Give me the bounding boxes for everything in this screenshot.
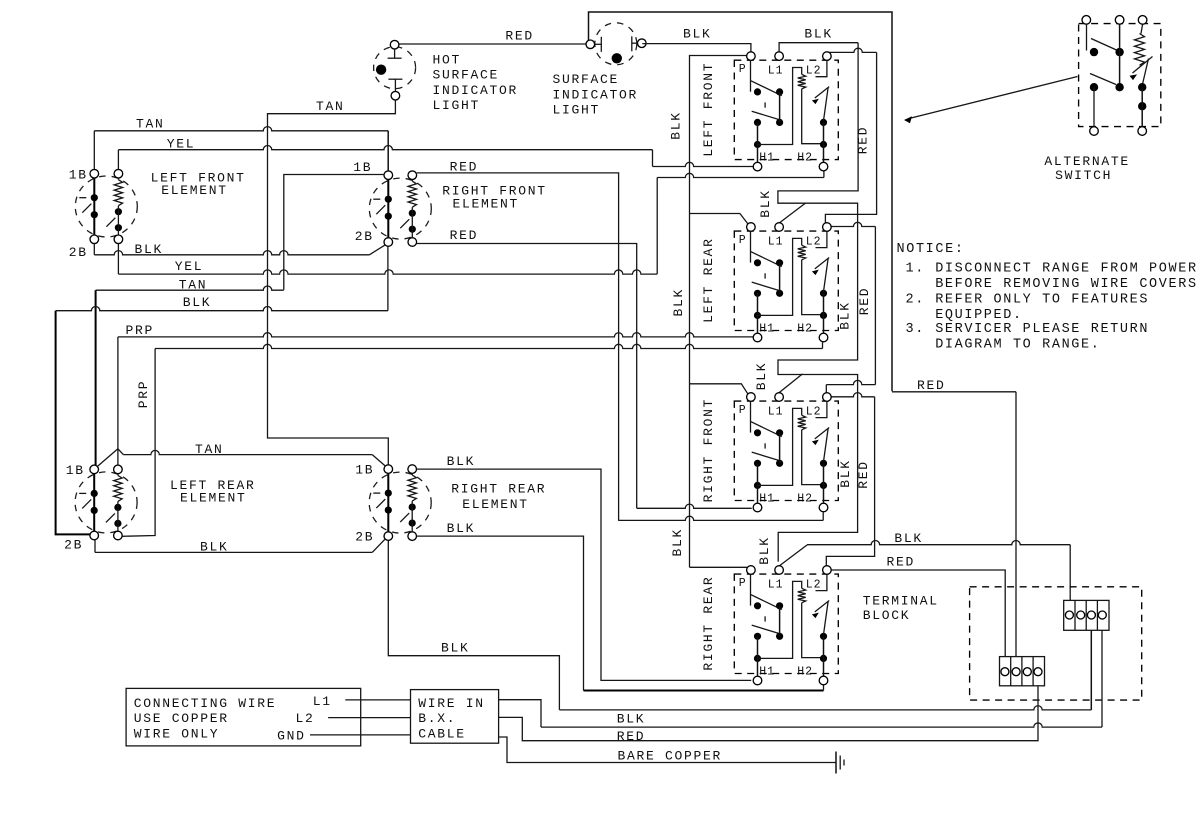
switch S4 adjust arrow — [815, 601, 829, 612]
left rear element terminal 1B side — [90, 465, 99, 474]
svg-text:L1: L1 — [768, 405, 784, 418]
svg-text:L2: L2 — [806, 405, 822, 418]
wire YEL LF to H2-S1 — [823, 171, 825, 178]
wire RED vertical segment 1 — [825, 52, 876, 223]
wire H2-S2 to LR resistor-bottom — [822, 342, 824, 348]
left front element limiter contact lower — [91, 211, 98, 218]
left front element limiter blade — [82, 204, 91, 213]
svg-text:L1: L1 — [768, 235, 784, 248]
hot surface indicator light DS1 bottom terminal — [391, 91, 400, 100]
switch S1 bar B-D — [779, 92, 781, 123]
svg-text:TERMINAL: TERMINAL — [863, 594, 939, 609]
right rear element resistor — [408, 475, 416, 501]
svg-text:ELEMENT: ELEMENT — [161, 183, 228, 198]
switch S2 contact G — [820, 312, 827, 319]
svg-text:1B: 1B — [355, 463, 374, 478]
wire TAN light1 to x267 — [268, 100, 396, 465]
left front element limiter contact upper — [91, 194, 98, 201]
wire RED supply top rail — [589, 12, 893, 391]
svg-text:BLK: BLK — [135, 242, 164, 257]
wire BLK LR-2B to RR-2B — [94, 540, 96, 553]
svg-text:BLK: BLK — [837, 301, 852, 330]
svg-text:TAN: TAN — [316, 99, 345, 114]
switch S1 contact E — [754, 141, 761, 148]
svg-text:LIGHT: LIGHT — [553, 103, 601, 118]
svg-text:BLK: BLK — [447, 454, 476, 469]
svg-text:2B: 2B — [64, 538, 83, 553]
wire RED supply L2 — [499, 687, 1038, 741]
switch S4 RIGHT REAR dashed box — [734, 574, 838, 673]
svg-text:BEFORE REMOVING WIRE COVERS: BEFORE REMOVING WIRE COVERS — [935, 277, 1197, 292]
svg-text:ELEMENT: ELEMENT — [462, 497, 529, 512]
switch S3 blade tick — [764, 443, 766, 448]
switch S2 LEFT REAR dashed box — [734, 231, 838, 330]
wire BLK LF-2B to RF-2B — [93, 244, 95, 255]
svg-text:P: P — [739, 577, 747, 590]
svg-text:BLK: BLK — [447, 521, 476, 536]
switch S3 terminal L1 — [775, 393, 784, 402]
wire BLK L1-S1 riser — [779, 43, 858, 52]
terminal block dashed box — [970, 587, 1142, 700]
upper strip lug 2 — [1077, 611, 1085, 619]
alternate switch terminal T2 — [1115, 16, 1124, 25]
switch S3 contact E — [754, 482, 761, 489]
switch S1 contact D — [776, 119, 783, 126]
switch S4 pilot lead — [802, 603, 824, 658]
left front element dashed enclosure — [75, 176, 137, 237]
switch S1 contact B — [776, 88, 783, 95]
left rear element resistor blade — [106, 513, 115, 522]
svg-text:RED: RED — [887, 555, 916, 570]
switch S3 terminal H1 — [753, 503, 762, 512]
hot surface indicator light DS1 top electrode — [394, 49, 396, 58]
alternate switch pole 2 lead — [1119, 24, 1121, 87]
switch S4 terminal P — [747, 566, 756, 575]
switch S2 bar C-E-H1 — [757, 293, 759, 333]
right rear element terminal 2B side — [384, 532, 393, 541]
switch S2 bar F-H2 — [823, 293, 825, 333]
wire RED L2-S3 out — [831, 393, 875, 397]
svg-text:CONNECTING WIRE: CONNECTING WIRE — [134, 696, 277, 711]
right front element resistor line lower — [411, 207, 413, 238]
left front element resistor contact upper — [115, 208, 122, 215]
svg-text:H1: H1 — [759, 322, 775, 335]
switch S4 blade tick — [764, 616, 766, 621]
right front element dashed enclosure — [369, 178, 431, 239]
alternate switch dashed box — [1079, 24, 1161, 127]
alternate switch thermostat blade — [1142, 59, 1148, 86]
switch S2 blade upper — [751, 252, 782, 267]
switch S3 blade lower — [752, 452, 782, 461]
svg-text:LEFT REAR: LEFT REAR — [701, 237, 716, 323]
switch S4 pilot resistor — [798, 588, 806, 603]
left front element resistor contact lower — [115, 224, 122, 231]
switch S1 terminal H1 — [753, 162, 762, 171]
right front element terminal 2B side — [384, 238, 393, 247]
svg-text:RED: RED — [857, 287, 872, 316]
wire TAN crosslink RF-1B — [284, 175, 384, 290]
svg-text:3.: 3. — [906, 322, 925, 337]
left front element resistor lead — [117, 178, 119, 180]
right rear element resistor contact lower — [409, 520, 416, 527]
left rear element limiter tick — [79, 492, 86, 494]
right front element terminal resistor-bottom — [408, 238, 417, 247]
svg-text:BLK: BLK — [200, 540, 229, 555]
svg-text:2B: 2B — [69, 245, 88, 260]
upper strip lug 4 — [1098, 611, 1106, 619]
svg-text:ALTERNATE: ALTERNATE — [1044, 154, 1130, 169]
alternate switch contact 3 — [1090, 83, 1098, 91]
right front element terminal resistor-top — [408, 171, 417, 180]
switch S2 contact D — [776, 290, 783, 297]
svg-text:WIRE IN: WIRE IN — [418, 696, 485, 711]
wire RED L2-S2 out — [831, 222, 875, 226]
alternate switch resistor — [1135, 34, 1145, 66]
alternate switch blade upper — [1091, 39, 1117, 51]
right front element terminal 1B side — [384, 171, 393, 180]
wire RED vertical segment 2 — [874, 227, 876, 385]
wire RED L2-S4 to terminal block — [831, 570, 1005, 657]
switch S2 blade tick — [764, 273, 766, 278]
lower strip divider 2 — [1021, 657, 1023, 686]
svg-text:LIGHT: LIGHT — [433, 98, 481, 113]
svg-text:RIGHT FRONT: RIGHT FRONT — [701, 398, 716, 503]
svg-text:LEFT FRONT: LEFT FRONT — [701, 62, 716, 157]
wire RED stub S3 drop — [825, 385, 827, 393]
switch S2 pilot resistor — [798, 245, 806, 259]
svg-text:L1: L1 — [768, 64, 784, 77]
wire BLK RR-2B down — [388, 540, 559, 710]
switch S3 adjust arrow — [815, 428, 829, 439]
connecting wire box — [126, 688, 361, 746]
switch S1 bar F-H2 — [823, 122, 825, 162]
svg-text:SERVICER PLEASE RETURN: SERVICER PLEASE RETURN — [935, 322, 1149, 337]
right rear element dashed enclosure — [369, 472, 431, 533]
right rear element terminal 1B side — [384, 465, 393, 474]
surface indicator light DS2 right electrode — [632, 42, 638, 44]
switch S1 contact F — [820, 119, 827, 126]
svg-text:SWITCH: SWITCH — [1055, 168, 1112, 183]
switch S3 pilot loop — [758, 408, 802, 485]
switch S1 pilot resistor — [798, 74, 806, 89]
switch S2 contact F — [820, 290, 827, 297]
left rear element resistor line lower — [117, 501, 119, 531]
terminal block upper strip — [1064, 600, 1109, 630]
wire TAN junction to RR-1B — [118, 449, 123, 455]
wire PRP junction diagonal — [98, 449, 118, 466]
switch S4 terminal L1 — [775, 566, 784, 575]
wire TAN LF-1B to RF-1B — [93, 131, 95, 170]
switch S3 contact G — [820, 482, 827, 489]
right front element resistor — [408, 181, 416, 207]
left rear element limiter line — [93, 474, 95, 532]
switch S4 contact F — [820, 633, 827, 640]
svg-text:1.: 1. — [906, 261, 925, 276]
svg-text:RIGHT REAR: RIGHT REAR — [701, 576, 716, 671]
left front element resistor — [114, 180, 122, 206]
svg-text:DISCONNECT RANGE FROM POWER: DISCONNECT RANGE FROM POWER — [935, 261, 1197, 276]
left front element resistor line lower — [117, 206, 119, 235]
svg-text:BLK: BLK — [838, 459, 853, 488]
alternate switch contact 1 — [1090, 48, 1098, 56]
wire BLK light to P switch1 — [642, 44, 751, 52]
svg-text:L1: L1 — [313, 694, 332, 709]
right rear element terminal resistor-bottom — [408, 532, 417, 541]
wire PRP H1-S2 to LR — [118, 333, 753, 337]
svg-text:RED: RED — [450, 160, 479, 175]
switch S4 terminal L2 — [823, 566, 832, 575]
right rear element terminal resistor-top — [408, 465, 417, 474]
wire RED between lights — [395, 43, 586, 45]
switch S2 pilot lead — [802, 260, 824, 315]
wire BLK vertical L1 bus — [778, 43, 858, 562]
left rear element resistor — [114, 475, 122, 501]
switch S4 contact B — [776, 602, 783, 609]
switch S1 terminal H2 — [819, 162, 828, 171]
svg-text:P: P — [739, 404, 747, 417]
switch S4 blade lower — [752, 625, 782, 634]
lower strip divider 1 — [1010, 657, 1012, 686]
right front element resistor blade — [400, 219, 409, 228]
wire BLK drop to lug — [1069, 545, 1071, 601]
alternate switch terminal T3 — [1138, 16, 1147, 25]
svg-text:H2: H2 — [797, 492, 813, 505]
right rear element resistor line lower — [411, 501, 413, 532]
svg-text:RED: RED — [505, 29, 534, 44]
switch S1 pilot lead — [802, 89, 824, 144]
switch S3 P stem — [750, 401, 752, 432]
switch S2 pilot loop — [758, 238, 802, 315]
svg-text:L1: L1 — [768, 578, 784, 591]
lower strip lug 1 — [1001, 668, 1009, 676]
left front element resistor blade — [106, 218, 115, 227]
switch S2 contact C — [754, 290, 761, 297]
surface indicator light DS2 right terminal — [638, 39, 647, 48]
switch S2 adjust arrow — [815, 258, 829, 269]
lower strip lug 4 — [1034, 668, 1042, 676]
svg-text:L2: L2 — [806, 64, 822, 77]
svg-text:TAN: TAN — [195, 442, 224, 457]
switch S3 pilot lead — [802, 430, 824, 485]
left rear element terminal resistor-top — [114, 465, 123, 474]
svg-text:ELEMENT: ELEMENT — [180, 490, 247, 505]
wire PRP junction drop — [117, 449, 119, 465]
svg-text:BLK: BLK — [617, 712, 646, 727]
right rear element resistor contact upper — [409, 504, 416, 511]
switch S1 contact A — [754, 88, 761, 95]
wire P spur S2 — [690, 214, 749, 225]
switch S3 bar B-D — [779, 433, 781, 464]
surface indicator light DS2 dashed circle — [595, 23, 637, 65]
right front element resistor contact upper — [409, 210, 416, 217]
wire RED L2-S1 to riser — [827, 48, 877, 52]
svg-text:DIAGRAM TO RANGE.: DIAGRAM TO RANGE. — [935, 338, 1100, 353]
switch S4 bar C-E-H1 — [757, 636, 759, 676]
switch S3 contact A — [754, 429, 761, 436]
left rear element resistor contact lower — [114, 520, 121, 527]
lower strip divider 3 — [1032, 657, 1034, 686]
svg-text:P: P — [739, 234, 747, 247]
alternate switch contact 2 — [1115, 48, 1123, 56]
left rear element limiter contact upper — [91, 490, 98, 497]
svg-text:RED: RED — [917, 378, 946, 393]
alternate switch adjust arrow — [1133, 57, 1153, 74]
left rear element limiter contact lower — [91, 507, 98, 514]
switch S3 L2 tail — [816, 401, 827, 417]
switch S3 bar C-E-H1 — [757, 463, 759, 503]
switch S1 blade tick — [764, 102, 766, 107]
switch S3 contact D — [776, 460, 783, 467]
svg-text:GND: GND — [277, 728, 306, 743]
alternate switch contact 4 — [1115, 83, 1123, 91]
switch S1 terminal L2 — [823, 52, 832, 61]
annotation arrow to alternate switch — [909, 77, 1078, 119]
left front element terminal 1B side — [90, 169, 99, 178]
wire L2 into BX — [328, 717, 410, 719]
svg-text:H2: H2 — [797, 151, 813, 164]
right front element limiter blade — [376, 205, 385, 214]
switch S4 contact A — [754, 602, 761, 609]
alternate switch bottom lead — [1141, 87, 1143, 127]
svg-text:1B: 1B — [66, 463, 85, 478]
left front element limiter line — [93, 178, 95, 235]
svg-text:BLK: BLK — [683, 27, 712, 42]
svg-text:PRP: PRP — [126, 323, 155, 338]
switch S3 terminal L2 — [823, 393, 832, 402]
switch S4 bar F-H2 — [823, 636, 825, 676]
wire P spur S3 — [690, 384, 748, 394]
wire TAN crosslink to LR-1B — [96, 286, 284, 290]
alternate switch terminal B2 — [1138, 127, 1147, 136]
svg-text:BLK: BLK — [894, 531, 923, 546]
switch S1 terminal L1 — [775, 52, 784, 61]
left front element limiter tick — [79, 197, 86, 199]
svg-text:RED: RED — [856, 460, 871, 489]
svg-text:RED: RED — [617, 729, 646, 744]
hot surface indicator light DS1 gas dot — [376, 65, 386, 75]
switch S3 RIGHT FRONT dashed box — [734, 401, 838, 500]
svg-text:CABLE: CABLE — [418, 726, 466, 741]
alternate switch resistor lead — [1141, 24, 1143, 33]
switch S3 terminal H2 — [819, 503, 828, 512]
left rear element terminal 2B side — [90, 531, 99, 540]
wire TAN crosslink drop — [95, 290, 97, 465]
svg-text:WIRE ONLY: WIRE ONLY — [134, 726, 220, 741]
surface indicator light DS2 gas dot — [612, 53, 622, 63]
switch S4 L2 tail — [816, 574, 827, 590]
wire BLK L1-S4 link — [779, 545, 807, 566]
switch S4 thermostat blade — [824, 602, 829, 635]
switch S4 terminal H1 — [753, 676, 762, 685]
switch S2 terminal P — [747, 223, 756, 232]
svg-text:L2: L2 — [806, 235, 822, 248]
wire BARE COPPER ground — [499, 737, 836, 763]
switch S4 contact D — [776, 633, 783, 640]
wire L1 into BX — [345, 699, 410, 701]
svg-text:EQUIPPED.: EQUIPPED. — [935, 308, 1023, 323]
switch S2 thermostat blade — [824, 259, 829, 292]
right front element limiter line — [387, 180, 389, 238]
right rear element limiter contact lower — [385, 507, 392, 514]
wire GND into BX — [310, 734, 411, 736]
alternate switch pole1 bottom lead — [1093, 87, 1095, 127]
svg-text:ELEMENT: ELEMENT — [453, 197, 520, 212]
svg-text:TAN: TAN — [179, 278, 208, 293]
switch S2 P stem — [750, 231, 752, 262]
svg-text:NOTICE:: NOTICE: — [897, 242, 965, 257]
svg-text:B.X.: B.X. — [418, 711, 456, 726]
switch S4 contact G — [820, 655, 827, 662]
switch S3 contact C — [754, 460, 761, 467]
svg-text:YEL: YEL — [167, 137, 196, 152]
left rear element terminal resistor-bottom — [114, 531, 123, 540]
wire BLK P feed chain — [690, 56, 747, 568]
hot surface indicator light DS1 dashed circle — [374, 47, 416, 89]
left front element terminal resistor-top — [114, 169, 123, 178]
left front element terminal 2B side — [90, 235, 99, 244]
right front element limiter contact upper — [385, 196, 392, 203]
switch S1 terminal P — [747, 52, 756, 61]
switch S2 contact B — [776, 259, 783, 266]
wire BLK S4 to terminal block — [807, 541, 1070, 545]
wire BLK supply L1 — [499, 700, 541, 727]
wire RED vertical segment 3 — [826, 397, 874, 566]
svg-text:BLK: BLK — [758, 189, 773, 218]
wire RED right drop to terminal block — [1015, 392, 1017, 657]
wire RED top-rail to terminal block — [892, 391, 1016, 393]
switch S3 blade upper — [751, 422, 782, 437]
wire YEL LF to H1-S1 — [117, 150, 119, 170]
switch S1 blade lower — [752, 111, 782, 120]
switch S4 bar B-D — [779, 606, 781, 637]
switch S1 contact G — [820, 141, 827, 148]
svg-text:H1: H1 — [759, 665, 775, 678]
switch S1 contact C — [754, 119, 761, 126]
upper strip divider 2 — [1085, 600, 1087, 630]
right rear element limiter tick — [373, 492, 380, 494]
svg-text:1B: 1B — [353, 160, 372, 175]
svg-text:2.: 2. — [906, 292, 925, 307]
svg-text:2B: 2B — [355, 229, 374, 244]
right rear element limiter blade — [376, 499, 385, 508]
svg-text:BLOCK: BLOCK — [863, 608, 911, 623]
svg-text:BLK: BLK — [669, 111, 684, 140]
wire BLK RR-bottom to H2-S4 — [417, 536, 584, 690]
switch S2 contact E — [754, 312, 761, 319]
switch S2 contact A — [754, 259, 761, 266]
wire BLK L1-S3 link — [779, 374, 803, 393]
right rear element limiter line — [387, 473, 389, 531]
wire RED stub S3 — [826, 380, 875, 384]
alternate switch contact 5 — [1138, 83, 1146, 91]
surface indicator light DS2 left electrode — [595, 43, 602, 45]
svg-text:INDICATOR: INDICATOR — [433, 83, 519, 98]
svg-text:1B: 1B — [69, 168, 88, 183]
switch S2 terminal L2 — [823, 223, 832, 232]
svg-text:BLK: BLK — [757, 536, 772, 565]
left rear element dashed enclosure — [75, 472, 137, 533]
left front element terminal resistor-bottom — [114, 235, 123, 244]
upper strip divider 3 — [1096, 600, 1098, 630]
alternate switch contact 6 — [1138, 102, 1146, 110]
switch S1 bar C-E-H1 — [757, 122, 759, 162]
svg-text:L2: L2 — [296, 711, 315, 726]
svg-text:RED: RED — [855, 126, 870, 155]
wire P spur S4 — [690, 566, 749, 569]
svg-text:SURFACE: SURFACE — [553, 72, 620, 87]
right rear element resistor blade — [400, 513, 409, 522]
svg-text:SURFACE: SURFACE — [433, 68, 500, 83]
